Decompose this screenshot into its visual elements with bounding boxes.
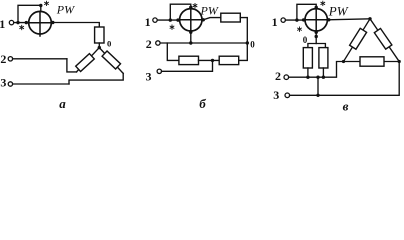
wattmeter cross horizontal (circuit a) [29,22,52,24]
wattmeter cross horizontal (circuit v) [305,19,327,21]
svg-text:3: 3 [146,70,152,84]
dot wattmeter right terminal (circuit v) [327,18,330,21]
svg-text:б: б [199,96,206,111]
delta bottom side wire (circuit v) [344,61,400,63]
terminal 3 open circle (circuit v) [285,93,290,98]
wire riser line3 to line2 (circuit v) [317,77,319,95]
svg-text:1: 1 [272,15,278,29]
terminal 2 open circle (circuit b) [156,41,160,45]
svg-text:3: 3 [273,88,279,102]
wire left branch to line2 (circuit a) [67,59,77,72]
svg-text:0: 0 [250,39,255,49]
dot wattmeter bottom terminal (circuit v) [315,31,318,34]
asterisk voltage terminal (circuit v) [321,1,325,5]
asterisk voltage terminal (circuit b) [193,3,197,7]
terminal 1 open circle (circuit v) [281,18,285,22]
wire wattmeter bottom to line2 (circuit b) [190,31,192,43]
terminal 3 open circle (circuit a) [8,82,12,86]
junction dot voltage tap (circuit v) [295,18,298,21]
node 0 junction dot (circuit b) [246,41,249,44]
resistor R3 right diagonal (circuit a) [102,51,120,69]
wire line1 to wattmeter (circuit v) [285,19,305,21]
asterisk current terminal (circuit a) [20,25,24,29]
wire line1 to wattmeter (circuit b) [157,19,179,21]
resistor R3 delta left side (circuit v) [350,28,367,49]
delta right side wire (circuit v) [370,19,399,62]
svg-text:2: 2 [0,52,6,66]
resistor R2 vertical right (circuit v) [319,48,328,68]
junction dot on line2 below wattmeter (circuit b) [189,41,192,44]
terminal 1 open circle (circuit a) [9,20,13,24]
wire left resistor to line2 (circuit v) [307,68,309,77]
wire drop from line2 to resistor row (circuit b) [167,43,179,60]
dot delta right vertex (circuit v) [398,60,401,63]
resistor R5 delta bottom (circuit v) [360,57,384,66]
op wattmeter PW circle (circuit a) [29,11,52,34]
svg-text:PW: PW [200,3,219,17]
wire node to left star branch (circuit a) [77,48,100,72]
wattmeter cross vertical (circuit b) [190,9,192,32]
wire resistor to bus (circuit b) [240,18,247,43]
asterisk voltage terminal (circuit a) [45,1,49,5]
wire line3 (circuit a) [13,83,69,85]
svg-text:PW: PW [56,3,75,17]
wire line2 (circuit b) [160,42,247,44]
svg-text:3: 3 [0,76,6,90]
dot wattmeter top terminal (circuit v) [315,6,318,9]
wire voltage tap up-over (circuit v) [297,4,316,20]
wire between lower resistors (circuit b) [199,59,220,61]
svg-text:1: 1 [0,17,5,31]
asterisk current terminal (circuit b) [170,25,174,29]
resistor R4 delta right side (circuit v) [374,28,392,49]
resistor R2 left diagonal (circuit a) [76,54,95,72]
terminal 1 open circle (circuit b) [153,18,157,22]
junction dot left resistor line2 (circuit v) [306,76,309,79]
wire voltage tap up-over (circuit a) [18,5,41,22]
dot wattmeter right terminal (circuit b) [202,18,205,21]
wire right branch to bus (circuit a) [69,73,123,84]
wire voltage tap up-over (circuit b) [170,4,191,20]
wattmeter cross vertical (circuit a) [39,11,41,36]
wire wattmeter right to resistor (circuit b) [203,18,221,20]
node 0 junction dot (circuit a) [98,46,101,49]
terminal 2 open circle (circuit a) [8,57,12,61]
resistor R1 vertical (circuit a) [95,27,104,43]
wire line3 (circuit v) [290,62,400,96]
dot delta apex (circuit v) [368,17,371,20]
junction dot riser on line3 (circuit v) [316,94,319,97]
wire line1 to wattmeter [14,22,29,24]
resistor R1 horizontal top (circuit b) [221,13,241,22]
dot delta left vertex (circuit v) [342,60,345,63]
svg-text:2: 2 [146,37,152,51]
delta left side wire (circuit v) [344,19,371,62]
wire wattmeter bottom to node 0 (circuit v) [315,31,317,44]
wattmeter cross horizontal (circuit b) [180,19,202,21]
wattmeter PW circle (circuit b) [180,9,202,31]
junction dot voltage tap (circuit b) [169,18,172,21]
resistor R1 vertical left (circuit v) [303,48,312,68]
wire line3 (circuit b) [162,60,213,71]
svg-text:0: 0 [303,35,308,45]
junction dot riser on line2 (circuit v) [316,76,319,79]
resistor R3 horizontal lower-right (circuit b) [219,56,239,64]
wire lower row to bus (circuit b) [239,43,248,60]
svg-text:2: 2 [275,69,281,83]
wire line2 (circuit a) [13,58,67,60]
svg-text:а: а [59,96,66,111]
dot wattmeter left terminal (circuit a) [25,21,28,24]
wattmeter PW circle (circuit v) [305,9,327,31]
wattmeter cross vertical (circuit v) [315,9,317,32]
wire resistor to node 0 (circuit a) [98,43,100,48]
wire wattmeter to delta apex (circuit v) [327,19,370,20]
wire wattmeter to resistor (circuit a) [51,23,99,28]
resistor R2 horizontal lower-left (circuit b) [179,56,199,64]
junction dot between lower resistors (circuit b) [211,59,214,62]
dot wattmeter left terminal (circuit b) [176,18,179,21]
wire line2 to delta (circuit v) [289,62,344,78]
dot wattmeter bottom terminal (circuit b) [189,31,192,34]
dot wattmeter right terminal (circuit a) [51,21,54,24]
asterisk current terminal (circuit v) [298,27,302,31]
svg-text:PW: PW [328,4,349,19]
svg-text:в: в [343,98,349,112]
wire node to right star branch (circuit a) [99,48,123,74]
wire right resistor to line2 (circuit v) [322,68,324,77]
dot wattmeter top terminal (circuit b) [189,6,192,9]
dot wattmeter left terminal (circuit v) [302,18,305,21]
terminal 2 open circle (circuit v) [284,75,289,80]
junction dot right resistor line2 (circuit v) [322,76,325,79]
junction dot voltage tap (circuit a) [16,21,19,24]
svg-text:0: 0 [107,39,112,49]
wire T-bar to resistors (circuit v) [308,44,326,48]
svg-text:1: 1 [145,15,151,29]
node 0 dot (circuit v) [315,35,318,38]
dot at top corner (circuit a) [39,4,42,7]
terminal 3 open circle (circuit b) [157,69,161,73]
